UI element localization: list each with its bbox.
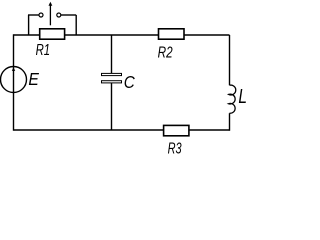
capacitor C bottom plate bbox=[102, 81, 122, 83]
source E circle bbox=[1, 67, 27, 93]
svg-text:R2: R2 bbox=[158, 45, 173, 62]
wire right vertical bbox=[229, 35, 231, 131]
wire switch branch top-left bbox=[28, 14, 39, 16]
switch contact right bbox=[57, 13, 61, 17]
svg-text:E: E bbox=[28, 69, 39, 89]
wire switch branch left bbox=[28, 15, 30, 35]
svg-text:L: L bbox=[238, 86, 247, 108]
wire middle vertical bbox=[111, 35, 113, 130]
switch SA lever arrow bbox=[49, 2, 53, 26]
wire top horizontal bbox=[14, 34, 230, 36]
inductor L arcs bbox=[229, 85, 236, 113]
capacitor C top plate bbox=[102, 73, 122, 75]
wire left vertical bbox=[13, 34, 15, 130]
resistor R2 bbox=[159, 29, 185, 39]
switch contact left bbox=[39, 13, 43, 17]
source E arrowhead bbox=[12, 67, 15, 71]
svg-text:R3: R3 bbox=[168, 141, 182, 158]
wire switch branch top-right bbox=[61, 14, 76, 16]
svg-text:R1: R1 bbox=[36, 42, 51, 59]
wire bottom horizontal bbox=[14, 129, 230, 131]
svg-text:C: C bbox=[124, 72, 135, 92]
wire switch branch right bbox=[75, 15, 77, 35]
resistor R3 bbox=[164, 125, 189, 135]
resistor R1 bbox=[40, 29, 65, 39]
